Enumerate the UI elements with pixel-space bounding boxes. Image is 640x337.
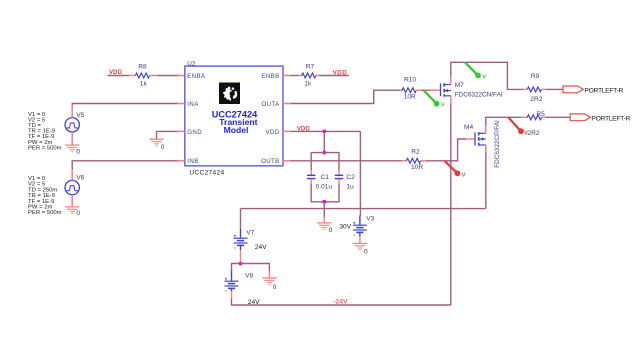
transistor M4 FDC6322CP/FAI [475,132,486,146]
resistor R2 [406,158,420,163]
svg-text:R9: R9 [531,73,540,80]
port PORTLEFT-R (upper) [563,86,583,93]
svg-text:V8: V8 [245,272,253,279]
wire V5 top stub [71,105,73,118]
probe V green on M7 gate [424,91,445,109]
wire M4 drain up to R5 row [486,117,521,125]
capacitor C2 bottom stub [338,179,340,183]
ground right of V8 [262,278,276,285]
junction cap top node [322,151,326,155]
svg-text:R7: R7 [306,63,315,70]
resistor R2 left stub [402,160,406,162]
svg-text:V6: V6 [76,175,84,182]
svg-text:0.01u: 0.01u [316,184,333,191]
resistor R9 [527,87,541,92]
pin stub INB [178,160,185,162]
svg-text:10R: 10R [404,94,416,101]
pin stub M7 drain [450,77,452,85]
battery V7 24V [234,235,248,248]
pin stub INA [178,103,185,105]
wire GND pin to ground [157,131,178,138]
wire R2 to M4 gate riser [426,139,466,161]
svg-text:1k: 1k [140,81,148,88]
svg-text:U2: U2 [187,60,196,67]
V6 parameter text [28,176,62,216]
svg-text:ENBA: ENBA [187,73,206,80]
voltage source V5 (pulse) [65,118,79,132]
svg-text:24V: 24V [255,244,267,251]
svg-text:2R2: 2R2 [530,96,542,103]
ground under V6 [65,207,79,214]
svg-text:0: 0 [76,148,80,155]
pin stub OUTA [283,103,290,105]
battery V8 bottom lead [231,289,233,292]
wire V6 bottom stub [71,195,73,207]
capacitor C2 top stub [338,171,340,175]
wire junction to V8 [232,264,241,272]
svg-text:0: 0 [76,210,80,217]
battery V8 bottom stub [231,291,233,299]
battery V7 top lead [240,229,242,238]
svg-text:30V: 30V [339,224,351,231]
pin stub VDD [283,130,290,132]
svg-text:R8: R8 [138,63,147,70]
resistor R7 [302,73,316,78]
svg-text:PORTLEFT-R: PORTLEFT-R [591,115,630,122]
svg-text:PER = 500m: PER = 500m [28,210,62,216]
wire OUTA to R10 (with rise) [290,90,400,103]
svg-text:V: V [441,103,445,109]
resistor R10 left stub [400,89,403,91]
svg-text:0: 0 [329,227,333,234]
svg-text:PER = 500m: PER = 500m [28,145,62,151]
ground at GND pin [149,139,163,146]
svg-text:UCC27424: UCC27424 [189,170,224,177]
wire OUTB to R2 [290,160,402,162]
svg-text:R10: R10 [404,77,416,84]
wire +24V rail (V7 to M4 source) [241,208,486,210]
wire V3 branch down [359,131,361,215]
battery V8 24V [225,278,239,291]
svg-text:2R2: 2R2 [528,130,540,137]
svg-text:GND: GND [187,129,202,136]
wire R7 to VDD [320,75,349,77]
svg-text:0: 0 [273,284,277,291]
resistor R8 right stub [149,75,157,77]
resistor R9 right stub [542,88,546,90]
ground under V3 [353,243,367,250]
pin stub M7 gate [430,89,441,91]
wire cap loop bottom [311,183,339,202]
capacitor C1 top stub [310,171,312,175]
pin stub ENBA [178,75,185,77]
pin stub M4 drain [485,126,487,134]
wire R8 to ENBA pin [158,75,178,77]
battery V3 top lead [359,216,361,226]
svg-text:FDC6322CN/FAI: FDC6322CN/FAI [455,92,503,99]
capacitor C1 bottom stub [310,179,312,183]
wire ENBB to R7 [290,75,298,77]
wire V6 to INB corner [72,161,177,169]
svg-text:VDD: VDD [266,129,280,136]
wire M7 drain to R9 (top rail) [451,62,523,89]
pin stub M4 gate [466,138,475,140]
V5 parameter text [28,112,62,152]
battery V7 bottom lead [240,246,242,251]
svg-text:10R: 10R [411,164,423,171]
wire VDD pin to V3 [290,130,360,132]
wire M4 source down to +24V rail [485,153,487,209]
pin stub OUTB [283,160,290,162]
ground stub below caps [323,218,325,223]
svg-text:C2: C2 [346,174,355,181]
svg-text:FDC6322CP/FAI: FDC6322CP/FAI [494,120,501,168]
wire junction to ground (right) [241,264,270,272]
pin stub M4 source [485,145,487,153]
probe V red on R5 row [508,117,528,136]
pin stub M7 source [450,96,452,104]
junction cap bottom node [322,200,326,204]
wire M7 source down to -24V rail [450,104,452,306]
svg-text:V3: V3 [366,216,374,223]
junction V7-/V8+ node [239,262,243,266]
ground under V5 [65,145,79,152]
wire R5 to port [546,116,570,118]
wire -24V rail [232,299,451,306]
svg-text:0: 0 [364,249,368,256]
svg-text:VDD: VDD [333,69,348,76]
wire cap loop top [311,153,339,171]
wire V6 top stub [71,168,73,180]
ground below caps [317,223,331,230]
battery V3 bottom lead [359,233,361,237]
resistor R9 left stub [523,88,527,90]
capacitor C1 [307,175,315,178]
svg-text:C1: C1 [321,174,330,181]
svg-text:1k: 1k [304,80,312,87]
wire net VDD to R8 (ENBA row) [108,75,129,77]
probe V red on R2/M4 gate [445,161,466,178]
ground stub right of V8 [268,271,270,278]
wire R10 to M7 gate [421,89,430,91]
resistor R5 left stub [521,116,528,118]
svg-text:PORTLEFT-R: PORTLEFT-R [584,87,623,94]
wire rail corner down to V7 [240,209,242,229]
svg-text:VDD: VDD [297,126,311,133]
wire V5 bottom stub [71,132,73,145]
svg-text:M4: M4 [464,124,473,131]
wire junction down to cap top node [323,131,325,152]
resistor R10 right stub [415,89,421,91]
resistor R8 [135,73,149,78]
svg-text:V: V [462,172,466,178]
resistor R10 [402,88,416,93]
resistor R7 left stub [299,75,303,77]
svg-text:INB: INB [187,158,198,165]
resistor R7 right stub [315,75,320,77]
voltage source V6 (pulse) [65,180,79,194]
resistor R5 [527,115,541,120]
svg-text:ENBB: ENBB [261,73,279,80]
wire V5 to INA corner [72,104,177,106]
port PORTLEFT-R (lower) [570,114,590,121]
svg-text:OUTB: OUTB [261,158,280,165]
battery V3 ground stub [359,237,361,243]
svg-text:0: 0 [161,144,165,151]
wire cap bottom node to ground [323,202,325,218]
svg-text:V5: V5 [76,112,84,119]
svg-text:V7: V7 [246,229,254,236]
transistor M7 FDC6322CN/FAI [441,83,451,96]
capacitor C2 [335,175,343,178]
svg-text:OUTA: OUTA [262,101,281,108]
resistor R2 right stub [421,160,426,162]
svg-text:1u: 1u [346,184,354,191]
pin stub GND [178,130,185,132]
pin stub ENBB [283,75,290,77]
junction VDD / decoupling node [322,130,326,134]
svg-text:-24V: -24V [333,299,348,306]
battery V8 top lead [231,271,233,281]
op-amp U2 IC body UCC27424 [185,66,283,166]
svg-text:R2: R2 [411,148,420,155]
resistor R8 left stub [129,75,136,77]
svg-text:Model: Model [224,125,249,135]
battery V7 bottom stub [240,250,242,262]
svg-text:V: V [482,74,486,80]
wire R9 to port [546,88,563,90]
svg-text:M7: M7 [455,82,464,89]
TI logo [219,83,240,105]
resistor R5 right stub [542,116,546,118]
svg-text:VDD: VDD [109,69,123,76]
probe V green on top rail [465,62,487,80]
svg-text:INA: INA [187,101,199,108]
battery V3 30V [353,222,367,235]
